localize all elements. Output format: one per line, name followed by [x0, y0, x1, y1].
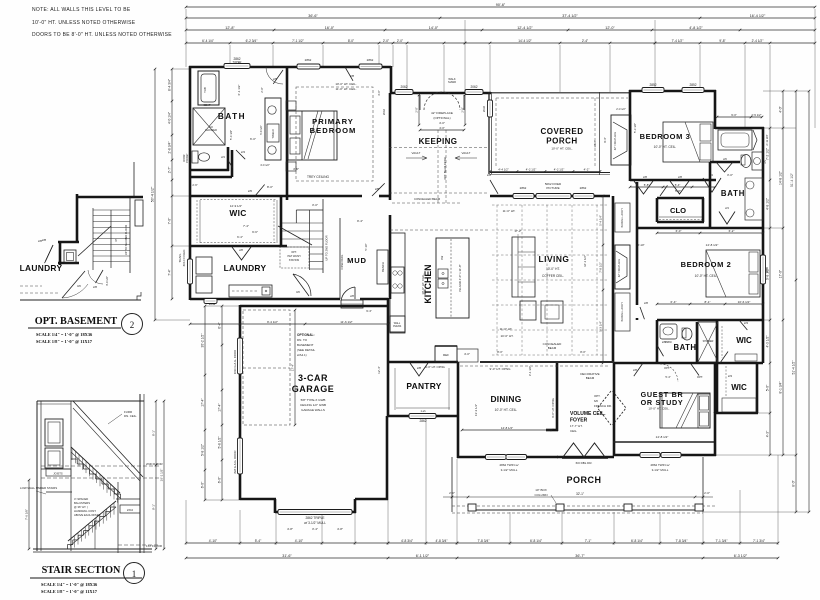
- svg-text:10'-0" HT. CEIL.: 10'-0" HT. CEIL.: [654, 145, 677, 149]
- svg-text:DW: DW: [441, 255, 444, 260]
- svg-text:4'-8": 4'-8": [337, 527, 343, 531]
- svg-text:3'-1 1/2": 3'-1 1/2": [528, 366, 532, 376]
- svg-text:DN: DN: [115, 238, 118, 242]
- svg-text:PET WASH: PET WASH: [288, 255, 301, 258]
- svg-text:DOOR: DOOR: [184, 154, 186, 161]
- svg-text:LOW WALL UNDER STAIRS: LOW WALL UNDER STAIRS: [20, 486, 57, 490]
- wall guest wing interior: [715, 363, 717, 413]
- svg-text:SCALE 1/4" = 1'-0" @ 18X36: SCALE 1/4" = 1'-0" @ 18X36: [36, 332, 93, 337]
- svg-text:2/8: 2/8: [350, 74, 355, 78]
- svg-text:6'-1 1/2": 6'-1 1/2": [416, 554, 430, 558]
- svg-text:ISLAND 4'-0" x 11'-8": ISLAND 4'-0" x 11'-8": [458, 264, 462, 291]
- fixture tub primary bath: [198, 71, 219, 105]
- svg-text:11'-6 1/2": 11'-6 1/2": [340, 320, 352, 324]
- svg-text:OPT.: OPT.: [697, 375, 703, 379]
- svg-text:2/8: 2/8: [375, 187, 380, 191]
- svg-text:OPTIONAL:: OPTIONAL:: [297, 333, 315, 337]
- svg-text:4'-8 3/4": 4'-8 3/4": [435, 539, 448, 543]
- svg-text:3042: 3042: [209, 302, 216, 306]
- svg-text:2862: 2862: [520, 186, 527, 190]
- svg-text:2'-0": 2'-0": [460, 107, 464, 112]
- fixture bed primary: [286, 101, 337, 171]
- stair section title: [30, 563, 145, 595]
- wall living top (window wall): [490, 92, 610, 196]
- svg-text:6'-2": 6'-2": [729, 229, 735, 233]
- svg-text:12'-9 1/2": 12'-9 1/2": [230, 204, 242, 208]
- guest bedroom bed and label: [613, 390, 714, 442]
- svg-text:WIC: WIC: [229, 208, 246, 218]
- svg-text:2/8: 2/8: [633, 368, 637, 372]
- svg-text:LIVING: LIVING: [539, 254, 570, 264]
- svg-text:2862: 2862: [419, 419, 426, 423]
- svg-text:DN. TO: DN. TO: [297, 338, 308, 342]
- svg-text:17'-2": 17'-2": [514, 229, 521, 233]
- svg-text:4'-8 1/2": 4'-8 1/2": [765, 197, 769, 210]
- svg-text:CONCEALED BEAM: CONCEALED BEAM: [414, 197, 441, 201]
- svg-text:LAUNDRY: LAUNDRY: [20, 263, 63, 273]
- svg-text:2/8: 2/8: [273, 77, 277, 81]
- svg-text:3/0: 3/0: [296, 290, 300, 294]
- bedroom3 bed and label: [640, 122, 713, 162]
- svg-text:7'-1 3/4": 7'-1 3/4": [753, 539, 766, 543]
- windows garage south triple: [278, 510, 352, 532]
- hall ceiling notes above dining: [425, 365, 610, 371]
- window covered porch left: [482, 100, 493, 117]
- hall dims bedroom wing: [656, 173, 765, 234]
- wall spine x=390 kitchen west: [389, 93, 392, 299]
- svg-text:2/8: 2/8: [644, 301, 648, 305]
- svg-text:10'-6 1/2": 10'-6 1/2": [738, 300, 751, 304]
- svg-text:12'-4": 12'-4": [377, 366, 381, 374]
- svg-text:9'-0" HT. OPNG: 9'-0" HT. OPNG: [490, 367, 512, 371]
- svg-text:10'-0" HT. CEIL.: 10'-0" HT. CEIL.: [335, 82, 356, 86]
- svg-text:3-CAR: 3-CAR: [298, 373, 328, 383]
- svg-text:10'-0" HT.: 10'-0" HT.: [501, 334, 514, 338]
- svg-text:WIC: WIC: [736, 336, 752, 345]
- svg-text:VAULT: VAULT: [462, 151, 471, 155]
- wall exterior top-left block: [189, 66, 391, 300]
- svg-text:4'-8 1/2": 4'-8 1/2": [689, 26, 703, 30]
- window pantry south 2862: [409, 414, 436, 424]
- svg-text:2'-0": 2'-0": [260, 87, 264, 92]
- svg-text:LIN: LIN: [764, 160, 767, 164]
- svg-text:OPEN RAIL: OPEN RAIL: [340, 254, 344, 269]
- svg-text:4'-0 1/2": 4'-0 1/2": [105, 276, 109, 286]
- svg-text:5'-8": 5'-8": [644, 183, 650, 187]
- svg-text:10'-0" HT. CEIL.: 10'-0" HT. CEIL.: [421, 273, 425, 294]
- svg-text:2062: 2062: [382, 108, 386, 115]
- left dimension lines: [150, 68, 190, 322]
- svg-text:2/A4.1): 2/A4.1): [297, 353, 307, 357]
- svg-text:TRAN.: TRAN.: [178, 253, 182, 262]
- porch outline and columns: [452, 457, 717, 513]
- right dimension lines: [703, 90, 810, 514]
- svg-text:4'-3 1/2": 4'-3 1/2": [765, 335, 769, 348]
- svg-text:GARAGE WALLS: GARAGE WALLS: [301, 408, 325, 412]
- svg-text:11'-0" HT.: 11'-0" HT.: [500, 327, 513, 331]
- mud open rail and bench: [340, 218, 388, 299]
- fixture sofa living: [512, 237, 535, 297]
- svg-text:SHOWER: SHOWER: [703, 340, 714, 343]
- svg-text:2'-8 3/4": 2'-8 3/4": [167, 141, 171, 154]
- stair section diagonal furr ceiling: [73, 401, 143, 481]
- svg-text:17'-4": 17'-4": [217, 402, 221, 411]
- svg-text:9'-4 1/2": 9'-4 1/2": [267, 320, 278, 324]
- svg-text:5'-3 1/4": 5'-3 1/4": [598, 321, 602, 332]
- svg-text:10'-0" HT.: 10'-0" HT.: [546, 267, 560, 271]
- svg-text:CLO: CLO: [670, 206, 686, 215]
- svg-text:2032: 2032: [482, 105, 486, 112]
- wall south: dining and foyer: [457, 362, 614, 458]
- opt pet wash station dashed: [280, 247, 309, 268]
- svg-text:11'-0" HT.: 11'-0" HT.: [503, 209, 516, 213]
- svg-text:8'-1": 8'-1": [151, 430, 155, 436]
- svg-text:14'-8 1/2": 14'-8 1/2": [501, 426, 513, 430]
- foyer labels: [551, 398, 606, 433]
- svg-text:3/0: 3/0: [77, 284, 81, 288]
- primary wc partition walls: [190, 147, 229, 171]
- svg-text:10'-0" HT. CEIL.: 10'-0" HT. CEIL.: [648, 407, 669, 411]
- svg-text:5'-0 1/4": 5'-0 1/4": [229, 130, 233, 140]
- svg-text:51'-4 1/2": 51'-4 1/2": [790, 172, 794, 187]
- svg-text:7'-8 1/2": 7'-8 1/2": [598, 262, 602, 273]
- stair section detail box: [33, 394, 152, 553]
- svg-text:12'-0": 12'-0": [605, 26, 615, 30]
- svg-text:31'-6": 31'-6": [282, 554, 292, 558]
- svg-text:4'-0 1/4": 4'-0 1/4": [167, 111, 171, 124]
- svg-text:TOPER: TOPER: [233, 60, 242, 64]
- svg-text:16'-1 1/2": 16'-1 1/2": [583, 255, 587, 267]
- svg-text:14'-4 1/2": 14'-4 1/2": [518, 39, 531, 43]
- svg-text:SCALE 1/8" = 1'-0" @ 11X17: SCALE 1/8" = 1'-0" @ 11X17: [36, 339, 93, 344]
- svg-text:4'-6": 4'-6": [293, 167, 299, 171]
- svg-text:VSB30: VSB30: [664, 341, 672, 344]
- svg-text:2/8: 2/8: [42, 238, 47, 242]
- misc small dims interior: [237, 77, 456, 228]
- svg-text:8'-4 3/4": 8'-4 3/4": [167, 78, 171, 91]
- svg-text:17'-4": 17'-4": [200, 397, 204, 406]
- garage dims interior: [189, 309, 390, 427]
- kitchen counter west: [390, 233, 405, 333]
- top dimension lines: [185, 3, 817, 128]
- svg-text:COLUMN: COLUMN: [534, 493, 547, 497]
- svg-text:CEIL.: CEIL.: [570, 429, 577, 433]
- fixture ref and counter: [435, 346, 478, 362]
- svg-text:5'-8": 5'-8": [675, 189, 681, 193]
- fixture washer dryer: [196, 257, 212, 293]
- svg-text:BATH: BATH: [673, 343, 696, 352]
- svg-text:30'-2 1/2": 30'-2 1/2": [200, 333, 204, 348]
- svg-text:14'-8 1/2": 14'-8 1/2": [656, 435, 669, 439]
- svg-text:BALUSTERS: BALUSTERS: [74, 501, 90, 505]
- svg-text:8'-0": 8'-0": [267, 185, 273, 189]
- primary bedroom ceiling note: [335, 82, 356, 91]
- svg-text:13'-3 1/2": 13'-3 1/2": [474, 404, 478, 416]
- svg-text:3'-0": 3'-0": [312, 203, 318, 207]
- label wic primary: [229, 204, 246, 218]
- svg-text:BATH: BATH: [721, 189, 745, 198]
- svg-text:2862: 2862: [367, 58, 374, 62]
- svg-text:VOLUME CEIL.: VOLUME CEIL.: [570, 411, 606, 417]
- svg-text:SCALE 1/4" = 1'-0" @ 18X36: SCALE 1/4" = 1'-0" @ 18X36: [41, 582, 98, 587]
- svg-text:6'-8 1/4": 6'-8 1/4": [631, 539, 644, 543]
- svg-text:2'-7": 2'-7": [167, 166, 171, 173]
- svg-text:4'-2 1/2": 4'-2 1/2": [554, 167, 565, 171]
- opt basement title: [28, 314, 143, 345]
- svg-text:17'-4": 17'-4": [290, 364, 294, 371]
- svg-text:PICTURE: PICTURE: [546, 186, 559, 190]
- svg-text:42" FIREPLACE: 42" FIREPLACE: [618, 259, 621, 278]
- svg-text:4'-8": 4'-8": [287, 527, 293, 531]
- primary bath small dims: [192, 87, 386, 187]
- primary bath entry door: [266, 67, 283, 84]
- svg-text:PANTRY: PANTRY: [406, 381, 441, 391]
- svg-text:5'-8 1/2": 5'-8 1/2": [217, 436, 221, 449]
- svg-text:2/8: 2/8: [93, 285, 97, 289]
- svg-text:(SEE DETAIL: (SEE DETAIL: [297, 348, 315, 352]
- living lower notes: [480, 255, 614, 380]
- svg-text:WIC: WIC: [731, 383, 747, 392]
- svg-text:7'-4": 7'-4": [167, 268, 171, 275]
- svg-text:5'-0": 5'-0": [765, 384, 769, 391]
- svg-text:7'-1 1/2": 7'-1 1/2": [292, 39, 304, 43]
- svg-text:SHOWER: SHOWER: [205, 128, 217, 132]
- svg-text:2852: 2852: [689, 83, 696, 87]
- label bath primary: [218, 112, 246, 121]
- svg-text:1-sh: 1-sh: [420, 409, 426, 413]
- svg-text:BARRELL ARCH: BARRELL ARCH: [621, 208, 624, 227]
- svg-text:6'-8 1/4": 6'-8 1/4": [530, 539, 543, 543]
- svg-text:6/0: 6/0: [594, 399, 598, 403]
- dining label: [461, 366, 554, 431]
- svg-text:2/4: 2/4: [744, 321, 749, 325]
- svg-text:16'-0": 16'-0": [325, 26, 335, 30]
- svg-text:32'-1": 32'-1": [576, 492, 584, 496]
- windows bedroom3 top: [642, 83, 704, 93]
- svg-text:7'-4": 7'-4": [243, 224, 249, 228]
- svg-text:BEDROOM 2: BEDROOM 2: [681, 260, 732, 269]
- svg-text:2/8: 2/8: [487, 173, 492, 177]
- svg-text:(OPTIONAL): (OPTIONAL): [433, 116, 450, 120]
- svg-text:DINING: DINING: [490, 394, 521, 404]
- svg-text:14'-0": 14'-0": [429, 26, 439, 30]
- svg-text:3-1/2" MULL: 3-1/2" MULL: [652, 468, 669, 472]
- svg-text:REF: REF: [443, 353, 449, 357]
- living coffer dashed grid: [492, 205, 607, 355]
- windows guest south: [640, 453, 681, 473]
- svg-text:2/4: 2/4: [728, 374, 733, 378]
- svg-text:9'-8": 9'-8": [719, 39, 725, 43]
- svg-text:4'-10": 4'-10": [295, 539, 304, 543]
- svg-text:4'-0": 4'-0": [439, 121, 445, 125]
- svg-text:9'-4": 9'-4": [357, 219, 363, 223]
- svg-text:BASEMENT: BASEMENT: [297, 343, 314, 347]
- fixture vanity primary bath: [259, 98, 281, 167]
- svg-text:9'-1": 9'-1": [151, 504, 155, 510]
- svg-text:5'-4": 5'-4": [675, 183, 681, 187]
- svg-text:2862 TWIN w/: 2862 TWIN w/: [651, 463, 670, 467]
- svg-text:@ 36" HT. |: @ 36" HT. |: [74, 505, 88, 509]
- left dimension lines garage: [200, 305, 240, 502]
- svg-text:MUD: MUD: [347, 256, 367, 265]
- svg-text:PORCH: PORCH: [566, 475, 601, 485]
- svg-text:SCALE 1/8" = 1'-0" @ 11X17: SCALE 1/8" = 1'-0" @ 11X17: [41, 589, 98, 594]
- svg-text:8'-0": 8'-0": [791, 479, 795, 486]
- wall keeping top: [390, 92, 492, 174]
- svg-text:7'-1 3/4": 7'-1 3/4": [715, 539, 728, 543]
- svg-text:10" BOX: 10" BOX: [535, 488, 547, 492]
- svg-text:5'-4": 5'-4": [665, 375, 670, 379]
- bottom dimension lines: [185, 418, 780, 559]
- svg-text:9'-4": 9'-4": [603, 137, 607, 142]
- pantry label and shelves: [395, 368, 450, 413]
- svg-text:6'-4": 6'-4": [217, 321, 221, 328]
- wall right lower: wic2 and guest: [614, 363, 758, 456]
- svg-text:16'-4 1/2": 16'-4 1/2": [750, 14, 766, 18]
- svg-text:17'-7" HT.: 17'-7" HT.: [570, 424, 583, 428]
- living fireplace east: [598, 195, 644, 365]
- bath2 fixtures tub toilet vanity: [718, 130, 767, 220]
- svg-text:6'-4 1/4": 6'-4 1/4": [202, 39, 214, 43]
- svg-text:2/8: 2/8: [38, 239, 42, 243]
- stair section window: [45, 419, 63, 468]
- svg-text:POCKET: POCKET: [187, 153, 189, 163]
- svg-text:2'-6": 2'-6": [192, 183, 197, 187]
- svg-text:2'-11 3/4": 2'-11 3/4": [765, 134, 769, 145]
- svg-text:9'-0" HT. OPNG: 9'-0" HT. OPNG: [551, 398, 555, 418]
- svg-text:BEDROOM: BEDROOM: [310, 126, 357, 135]
- svg-text:CEILING 1/2" GWB: CEILING 1/2" GWB: [300, 403, 326, 407]
- svg-text:8'-0": 8'-0": [497, 350, 503, 354]
- svg-text:36'-7": 36'-7": [575, 554, 585, 558]
- covered porch dashed perimeter: [496, 98, 628, 167]
- svg-text:12'-4 1/2": 12'-4 1/2": [517, 26, 533, 30]
- svg-text:2862 TWIN w/: 2862 TWIN w/: [500, 463, 519, 467]
- svg-text:2862 TRIPLE: 2862 TRIPLE: [305, 516, 324, 520]
- svg-text:3'-4": 3'-4": [312, 527, 318, 531]
- svg-text:BEDROOM 3: BEDROOM 3: [640, 132, 691, 141]
- svg-text:4'-0 1/2": 4'-0 1/2": [260, 163, 270, 167]
- svg-text:2'-0": 2'-0": [397, 39, 403, 43]
- svg-text:2862: 2862: [305, 58, 312, 62]
- svg-text:BEAM: BEAM: [586, 376, 595, 380]
- svg-text:OPT.: OPT.: [594, 394, 601, 398]
- svg-text:SHWR: SHWR: [448, 80, 456, 84]
- svg-text:w/ 3-1/2" MULL: w/ 3-1/2" MULL: [304, 521, 326, 525]
- svg-text:7'-6 1/8": 7'-6 1/8": [24, 509, 28, 520]
- svg-text:NOTE: ALL WALLS THIS LEVEL: NOTE: ALL WALLS THIS LEVEL TO BE: [32, 7, 131, 13]
- wall garage: [240, 305, 388, 513]
- stair section lower run with balusters: [67, 501, 116, 551]
- svg-text:2'-0": 2'-0": [414, 107, 418, 112]
- svg-text:TUB: TUB: [203, 87, 207, 93]
- kitchen island: [436, 238, 469, 318]
- svg-text:5'-10": 5'-10": [364, 243, 368, 250]
- svg-text:6'-0": 6'-0": [217, 476, 221, 483]
- covered porch labels: [540, 127, 583, 151]
- window bedroom2 east: [761, 255, 770, 284]
- svg-text:14'-8 1/2": 14'-8 1/2": [706, 243, 719, 247]
- svg-text:OPT. BASEMENT: OPT. BASEMENT: [35, 316, 118, 327]
- svg-text:2862: 2862: [765, 266, 769, 273]
- svg-text:2/6: 2/6: [248, 189, 253, 193]
- wall primary suite interior: [190, 67, 391, 246]
- svg-text:7'-2 1/2": 7'-2 1/2": [765, 147, 769, 160]
- svg-text:BATH: BATH: [218, 112, 246, 121]
- svg-text:5'-9 1/2": 5'-9 1/2": [259, 125, 263, 135]
- svg-text:4'-0": 4'-0": [439, 126, 445, 130]
- svg-text:COFFER CEIL.: COFFER CEIL.: [542, 274, 564, 278]
- svg-text:10'-0" HT. CEIL.: 10'-0" HT. CEIL.: [495, 408, 518, 412]
- label laundry main: [224, 263, 267, 273]
- svg-text:2'-5 1/2": 2'-5 1/2": [751, 113, 761, 117]
- svg-text:5'-4 1/4": 5'-4 1/4": [598, 215, 602, 226]
- svg-text:2/8: 2/8: [350, 294, 354, 298]
- fixture toilet primary wc: [184, 151, 233, 168]
- clo label and rod: [659, 206, 702, 220]
- svg-text:10'-0" HT. UNLESS NOTED OTH: 10'-0" HT. UNLESS NOTED OTHERWISE: [32, 20, 136, 26]
- fixture chair living: [520, 301, 563, 323]
- svg-text:2/4: 2/4: [725, 206, 729, 210]
- stair section landing: [116, 482, 140, 553]
- svg-text:5'-3 1/2": 5'-3 1/2": [633, 123, 637, 133]
- svg-text:8'-1": 8'-1": [705, 300, 711, 304]
- svg-text:4'-0": 4'-0": [778, 105, 782, 112]
- svg-text:OVENS: OVENS: [393, 325, 402, 328]
- svg-text:2/4: 2/4: [241, 150, 246, 154]
- covered porch interior dim row: [489, 167, 602, 240]
- svg-text:14'-4": 14'-4": [593, 140, 597, 147]
- svg-text:3010 FIXED: 3010 FIXED: [182, 249, 186, 267]
- windows keeping top: [395, 85, 483, 95]
- stair section dims: [24, 400, 165, 551]
- svg-text:5/8" TYPE-X GWB: 5/8" TYPE-X GWB: [301, 398, 326, 402]
- svg-text:STAIR SECTION: STAIR SECTION: [42, 565, 121, 576]
- garage labels: [292, 373, 335, 412]
- svg-text:6'-4": 6'-4": [671, 300, 677, 304]
- svg-text:SEAT: SEAT: [203, 103, 210, 107]
- svg-text:4'-10": 4'-10": [209, 539, 218, 543]
- svg-text:6/0 DBL DR.: 6/0 DBL DR.: [576, 461, 593, 465]
- svg-text:JOISTS: JOISTS: [53, 472, 63, 476]
- svg-text:2062: 2062: [470, 85, 477, 89]
- porch labels and dims: [443, 475, 713, 503]
- fixture shower primary bath: [193, 103, 225, 145]
- label primary bedroom: [310, 117, 357, 135]
- svg-text:DOORS TO BE 8'-0" HT. UNLE: DOORS TO BE 8'-0" HT. UNLESS NOTED OTHER…: [32, 32, 172, 38]
- svg-text:2'-4": 2'-4": [582, 39, 588, 43]
- svg-text:42" FIREPLACE: 42" FIREPLACE: [431, 111, 453, 115]
- stair section upper run with balusters: [71, 447, 121, 503]
- svg-text:BENCH: BENCH: [381, 262, 385, 272]
- svg-text:1ST FLOOR: 1ST FLOOR: [146, 544, 162, 548]
- bedroom3 dims: [629, 123, 717, 188]
- wall hall/living east and bedroom wing: [614, 162, 763, 363]
- svg-text:9'-0" HT. OPNG: 9'-0" HT. OPNG: [425, 365, 445, 369]
- svg-text:6'-0": 6'-0": [200, 481, 204, 488]
- opt basement stair detail: [76, 162, 143, 273]
- svg-text:2'-0": 2'-0": [704, 491, 710, 495]
- living labels: [503, 209, 570, 278]
- svg-text:2/8: 2/8: [417, 366, 422, 370]
- svg-text:6'-3 1/2": 6'-3 1/2": [734, 554, 748, 558]
- svg-text:FOYER: FOYER: [570, 418, 588, 424]
- windows dining south: [486, 455, 527, 473]
- wall laundry bottom / entry: [190, 299, 388, 313]
- svg-text:8'-1 3/4": 8'-1 3/4": [778, 381, 782, 394]
- svg-text:10'-0" HT. CEIL.: 10'-0" HT. CEIL.: [551, 147, 572, 151]
- svg-text:2'-0": 2'-0": [449, 491, 455, 495]
